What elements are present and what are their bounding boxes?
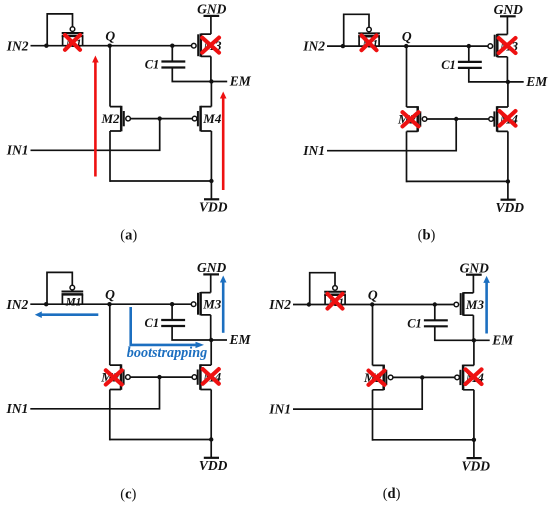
wire: M2 source down to bottom rail: [406, 131, 408, 182]
node: C1 top junction: [170, 302, 174, 306]
svg-text:GND: GND: [197, 2, 226, 17]
ground GND symbol: [500, 15, 516, 17]
transistor M4 (PMOS, gate left): [192, 116, 197, 121]
wire: IN1 to gate net: [30, 377, 159, 409]
node: VDD junction: [209, 437, 213, 441]
svg-text:IN2: IN2: [6, 38, 29, 53]
wire: IN1 to gate net: [327, 119, 456, 151]
node EM: [209, 79, 213, 83]
transistor M3 (PMOS, gate left): [192, 43, 197, 48]
wire: IN2 top rail to M3 gate: [31, 45, 192, 47]
wire: EM lead: [211, 81, 227, 83]
wire: gate net M2-M4: [131, 118, 193, 120]
svg-text:EM: EM: [229, 332, 252, 347]
transistor M4 (PMOS, gate left): [455, 375, 460, 380]
subcircuit (b): hold phase: [302, 2, 548, 244]
wire: Q down to M2 drain: [372, 305, 374, 366]
svg-text:IN1: IN1: [6, 401, 29, 416]
node Q: [108, 44, 112, 48]
node: C1 top junction: [170, 44, 174, 48]
transistor M3 (PMOS, gate left): [191, 302, 196, 307]
svg-text:M1: M1: [65, 297, 82, 309]
wire: M3 source to EM: [472, 315, 474, 340]
wire: M4 source down to bottom rail: [210, 131, 212, 182]
svg-text:EM: EM: [525, 74, 548, 89]
wire: M1 gate-to-source loop: [47, 272, 72, 303]
node: M1 source junction: [44, 302, 48, 306]
wire: M4 drain up to EM: [210, 340, 212, 365]
wire: gate net M2-M4: [130, 376, 192, 378]
transistor M2 (PMOS, gate right): [407, 107, 418, 131]
wire: IN2 top rail to M3 gate: [30, 303, 191, 305]
node EM: [209, 338, 213, 342]
capacitor C1: [434, 305, 436, 321]
wire: M1 gate-to-source loop: [47, 14, 72, 45]
subcircuit (a): emission phase: [6, 2, 252, 244]
wire: IN2 top rail to M3 gate: [293, 304, 454, 306]
wire: bottom rail: [110, 180, 211, 182]
wire: EM lead: [474, 339, 490, 341]
node: gate net junction: [420, 375, 424, 379]
X mark: M2 off: [106, 370, 122, 384]
node: VDD junction: [209, 179, 213, 183]
node Q: [107, 302, 111, 306]
node: M1 source junction: [44, 44, 48, 48]
transistor M2 (PMOS, gate right): [110, 365, 121, 389]
svg-text:IN1: IN1: [268, 402, 291, 417]
power VDD symbol: [210, 181, 212, 199]
wire: M1 gate-to-source loop: [344, 14, 369, 45]
wire: gate net M2-M4: [393, 376, 455, 378]
wire: M4 source down to bottom rail: [507, 131, 509, 182]
svg-text:(a): (a): [120, 228, 137, 244]
svg-text:M3: M3: [202, 297, 222, 312]
wire: EM lead: [508, 81, 524, 83]
wire: M2 source down to bottom rail: [109, 131, 111, 182]
node: gate net junction: [158, 116, 162, 120]
subcircuit (d): hold phase 2: [268, 260, 514, 502]
capacitor C1: [468, 46, 470, 62]
wire: IN1 to gate net: [31, 119, 160, 151]
svg-text:IN2: IN2: [302, 39, 325, 54]
X mark: M1 off: [362, 35, 377, 50]
node: VDD junction: [472, 438, 476, 442]
svg-text:M2: M2: [100, 111, 120, 126]
transistor M1 (PMOS, horizontal): [367, 27, 372, 32]
svg-text:IN1: IN1: [302, 143, 325, 158]
svg-text:M3: M3: [465, 297, 485, 312]
svg-text:VDD: VDD: [199, 458, 228, 473]
node Q: [404, 44, 408, 48]
wire: IN2 top rail to M3 gate: [327, 45, 488, 47]
wire: M3 source to EM: [210, 56, 212, 81]
arrow: bootstrapping path (blue): [131, 307, 197, 345]
wire: IN1 to gate net: [293, 377, 422, 409]
svg-text:EM: EM: [491, 332, 514, 347]
arrow: current path right (red): [222, 98, 225, 191]
arrow: discharge left (blue): [41, 313, 99, 316]
node: M1 source junction: [307, 302, 311, 306]
transistor M2 (PMOS, gate right): [110, 107, 121, 131]
X mark: M1 off: [328, 294, 343, 309]
power VDD symbol: [473, 440, 475, 458]
wire: M4 drain up to EM: [210, 82, 212, 107]
X mark: M1 off: [65, 35, 80, 50]
svg-text:bootstrapping: bootstrapping: [127, 345, 207, 361]
wire: M2 source down to bottom rail: [109, 390, 111, 441]
capacitor C1: [171, 46, 173, 62]
power VDD symbol: [210, 440, 212, 458]
node: C1 top junction: [433, 302, 437, 306]
wire: gate net M2-M4: [427, 118, 489, 120]
svg-text:GND: GND: [197, 260, 226, 275]
node Q: [370, 302, 374, 306]
svg-text:VDD: VDD: [199, 200, 228, 215]
subcircuit (c): bootstrapping phase: [6, 260, 252, 502]
svg-text:(c): (c): [120, 486, 136, 502]
ground GND symbol: [466, 274, 482, 276]
svg-text:C1: C1: [145, 316, 160, 330]
X mark: M2 off: [369, 371, 385, 385]
arrow: pull-up right (blue): [485, 282, 488, 334]
X mark: M4 off: [466, 369, 482, 384]
wire: Q down to M2 drain: [109, 46, 111, 107]
wire: M3 drain to GND: [506, 17, 508, 35]
svg-text:EM: EM: [229, 74, 252, 89]
wire: M4 source down to bottom rail: [473, 390, 475, 441]
svg-text:Q: Q: [402, 29, 412, 44]
svg-text:C1: C1: [407, 317, 422, 331]
wire: Q down to M2 drain: [406, 46, 408, 107]
ground GND symbol: [204, 15, 220, 17]
X mark: M4 off: [203, 369, 219, 384]
node: M1 source junction: [341, 44, 345, 48]
node EM: [472, 338, 476, 342]
wire: M1 gate-to-source loop: [310, 273, 335, 304]
transistor M4 (PMOS, gate left): [192, 375, 197, 380]
wire: bottom rail: [110, 439, 211, 441]
wire: M3 drain to GND: [210, 17, 212, 35]
svg-text:IN2: IN2: [268, 297, 291, 312]
transistor M1 (PMOS, horizontal): [70, 285, 75, 290]
wire: M4 source down to bottom rail: [210, 390, 212, 441]
wire: M3 drain to GND: [472, 275, 474, 293]
arrow: pull-up right (blue): [222, 282, 225, 333]
transistor M2 (PMOS, gate right): [373, 365, 384, 389]
svg-text:Q: Q: [368, 287, 378, 302]
capacitor C1: [171, 304, 173, 320]
transistor M4 (PMOS, gate left): [489, 117, 494, 122]
transistor M1 (PMOS, horizontal): [333, 286, 338, 291]
node: gate net junction: [157, 375, 161, 379]
ground GND symbol: [203, 273, 219, 275]
wire: M3 source to EM: [210, 315, 212, 340]
X mark: M2 off: [403, 112, 419, 126]
wire: bottom rail: [407, 180, 508, 182]
wire: bottom rail: [373, 439, 474, 441]
X mark: M3 off: [202, 38, 219, 53]
X mark: M3 off: [499, 38, 516, 53]
node EM: [506, 80, 510, 84]
svg-text:VDD: VDD: [462, 458, 491, 473]
svg-text:C1: C1: [145, 58, 160, 72]
wire: EM lead: [211, 339, 227, 341]
wire: M2 source down to bottom rail: [372, 390, 374, 441]
svg-text:IN1: IN1: [6, 143, 29, 158]
svg-text:C1: C1: [441, 58, 456, 72]
svg-text:VDD: VDD: [496, 200, 525, 215]
node: gate net junction: [454, 117, 458, 121]
svg-text:GND: GND: [494, 2, 523, 17]
power VDD symbol: [507, 181, 509, 199]
svg-text:GND: GND: [460, 260, 489, 275]
wire: M3 source to EM: [506, 57, 508, 82]
wire: M4 drain up to EM: [473, 340, 475, 365]
transistor M1 (PMOS, horizontal): [70, 27, 75, 32]
node: C1 top junction: [467, 44, 471, 48]
wire: M4 drain up to EM: [507, 82, 509, 107]
svg-text:(b): (b): [418, 227, 436, 243]
transistor M3 (PMOS, gate left): [454, 302, 459, 307]
arrow: current path left (red): [94, 62, 97, 177]
node: VDD junction: [506, 179, 510, 183]
wire: Q down to M2 drain: [109, 304, 111, 365]
svg-text:IN2: IN2: [6, 297, 29, 312]
X mark: M4 off: [500, 111, 516, 126]
transistor M3 (PMOS, gate left): [488, 44, 493, 49]
wire: M3 drain to GND: [210, 275, 212, 293]
svg-text:(d): (d): [383, 486, 401, 502]
svg-text:M4: M4: [202, 111, 222, 126]
svg-text:Q: Q: [105, 29, 115, 44]
svg-text:Q: Q: [105, 287, 115, 302]
